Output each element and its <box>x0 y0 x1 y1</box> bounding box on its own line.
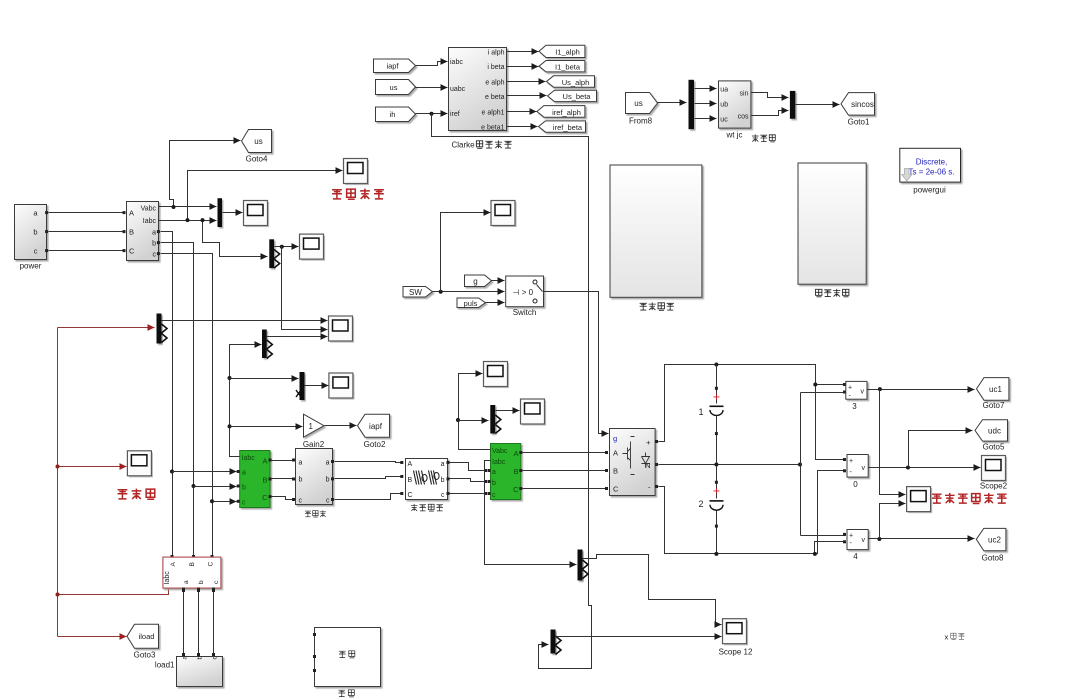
svg-text:wt jc: wt jc <box>726 131 743 140</box>
block Clarke transform subsystem <box>449 48 507 132</box>
svg-text:C: C <box>408 492 413 499</box>
wire Clarke.i_beta -> I1_beta <box>507 66 539 68</box>
wire DC- net : bridge - to bottom rail, v4-, v0- <box>659 469 847 556</box>
block VI1 three-phase V-I measurement <box>127 202 160 261</box>
label yu-chong-dian <box>305 510 326 517</box>
svg-text:iabc: iabc <box>450 59 463 66</box>
wire mux9 -> Goto1 <box>796 104 840 106</box>
svg-text:Scope2: Scope2 <box>980 482 1008 491</box>
wire green2.A -> bridge.A <box>523 451 609 454</box>
svg-text:Vabc: Vabc <box>492 448 508 455</box>
svg-text:Scope 12: Scope 12 <box>719 648 753 657</box>
wire demux8 -> wtjc.ua <box>695 88 717 90</box>
svg-text:b: b <box>326 477 330 484</box>
wire filter.b -> green2.b <box>450 479 488 484</box>
svg-text:e alph: e alph <box>485 80 504 87</box>
label wt jc <box>726 131 743 140</box>
svg-text:uc: uc <box>720 117 728 124</box>
label x-harmonic (gray) <box>945 633 965 642</box>
wire mux1 -> scopeA <box>223 212 243 214</box>
svg-text:c: c <box>441 492 445 499</box>
svg-text:b: b <box>152 241 156 248</box>
label yuan-xie-bo (red) <box>118 489 155 500</box>
svg-text:uabc: uabc <box>450 86 466 93</box>
svg-text:e alph1: e alph1 <box>482 110 505 117</box>
svg-text:udc: udc <box>988 427 1001 436</box>
svg-text:Goto8: Goto8 <box>982 554 1004 563</box>
demux demux2 <box>269 239 279 268</box>
svg-text:v: v <box>861 389 865 396</box>
svg-text:g: g <box>613 434 617 443</box>
wire From8 -> demux8 <box>658 102 687 104</box>
wire v0 -> Scope2 and Goto5 udc <box>869 431 981 470</box>
wire puls -> switch.in3 <box>486 302 505 304</box>
svg-text:us: us <box>390 83 398 92</box>
demux demux5 (red input, load current) <box>157 314 168 344</box>
svg-text:b: b <box>197 656 204 660</box>
voltage sensor 0 <box>847 455 868 490</box>
wire ih -> Clarke.iref, junction down to bottom loop <box>416 112 592 669</box>
demux demux6 <box>551 630 562 655</box>
scope Scope12 <box>719 619 753 657</box>
svg-text:B: B <box>262 476 267 485</box>
wire demux10 -> scope9 <box>496 410 520 412</box>
wire green2.Iabc down to demux7 <box>485 461 577 565</box>
svg-text:SW: SW <box>409 288 422 297</box>
scope scope8 <box>484 362 510 389</box>
wire VI1.c down-rail (x=211.5) to green1.c and red iabc block C <box>161 254 237 559</box>
from tag g <box>465 275 492 287</box>
wire iapf -> Clarke.iabc <box>416 62 448 66</box>
svg-text:A: A <box>262 457 267 466</box>
wire mux3 -> scope7 <box>305 385 329 387</box>
svg-text:a: a <box>441 461 445 468</box>
wire VI1.Iabc -> mux1 in2 / scope-bochang / down-branch <box>159 171 343 257</box>
label zhu-tuo-pu-mo-kuai (main topology) <box>640 302 674 310</box>
svg-text:cos: cos <box>738 114 749 121</box>
wire VI1.a down-rail (x=171.5) to green1.a and red iabc block A <box>161 232 237 559</box>
svg-text:c: c <box>242 500 246 507</box>
svg-text:Goto7: Goto7 <box>983 401 1005 410</box>
wire iabc block c -> load1.c <box>212 589 215 657</box>
label suo-xiang-huan (PLL) <box>752 134 775 141</box>
svg-text:I1_alph: I1_alph <box>555 48 580 57</box>
svg-text:b: b <box>299 477 303 484</box>
svg-text:B: B <box>613 467 618 476</box>
svg-text:4: 4 <box>853 552 858 561</box>
demux demux8 <box>689 80 695 129</box>
svg-text:b: b <box>33 228 37 237</box>
svg-text:us: us <box>254 137 262 146</box>
svg-text:C: C <box>129 247 135 256</box>
wire SW -> switch.in2 and up to scope5 <box>433 213 505 294</box>
demux demux10 <box>490 405 501 434</box>
block filter inductor (lv-bo-dian-gan) <box>406 459 450 500</box>
svg-text:c: c <box>34 247 38 256</box>
svg-text:Iabc: Iabc <box>143 218 157 225</box>
wire v4 -> Goto8 uc2 and scope-neutral in2 <box>869 504 975 542</box>
svg-text:2: 2 <box>699 499 704 509</box>
scope scope5 (SW display) <box>491 201 517 228</box>
capacitor C2 <box>699 465 724 554</box>
label zhong-dian-dian-wei-xiao-guo (red) <box>932 493 1007 503</box>
capacitor C1 <box>699 365 724 465</box>
wire Gain2 -> Goto2 <box>325 425 357 427</box>
wire g -> switch.in1 <box>492 280 505 282</box>
block main-topology big subsystem <box>610 165 702 297</box>
from tag puls <box>457 298 486 308</box>
svg-text:C: C <box>262 493 268 502</box>
block IGBT bridge <box>610 429 659 496</box>
gain Gain2 <box>303 414 325 449</box>
from tag ih <box>376 107 416 122</box>
svg-text:+: + <box>848 384 852 391</box>
goto tag Us_beta <box>548 90 597 101</box>
wire precharge.b -> filter.B <box>335 475 404 479</box>
svg-text:a: a <box>326 460 330 467</box>
svg-text:g: g <box>473 277 477 286</box>
svg-text:b: b <box>441 477 445 484</box>
wire precharge.a -> filter.A <box>335 461 404 464</box>
wire wtjc.sin -> mux9 <box>751 93 789 98</box>
svg-text:From8: From8 <box>629 117 653 126</box>
svg-text:C: C <box>613 485 619 494</box>
svg-text:powergui: powergui <box>913 186 946 195</box>
svg-text:c: c <box>326 498 330 505</box>
svg-text:uc1: uc1 <box>989 385 1002 394</box>
block powergui <box>900 148 961 194</box>
goto tag Goto8 uc2 <box>976 528 1006 562</box>
scope ScopeB <box>300 234 326 261</box>
svg-text:c: c <box>153 252 157 259</box>
svg-text:ih: ih <box>390 110 396 119</box>
from tag SW <box>403 287 433 298</box>
svg-text:power: power <box>20 262 42 271</box>
svg-text:+: + <box>646 438 651 447</box>
svg-text:a: a <box>182 656 189 660</box>
wire v3 -> Goto7 uc1 and scope-neutral in1 <box>867 387 975 494</box>
svg-text:e beta: e beta <box>485 94 505 101</box>
mux mux9 <box>790 91 796 119</box>
goto tag I1_beta <box>539 61 585 72</box>
svg-text:Ts = 2e-06 s.: Ts = 2e-06 s. <box>908 168 954 177</box>
svg-text:a: a <box>242 470 246 477</box>
wire Clarke.e_beta -> Us_beta <box>507 95 547 97</box>
goto tag Goto7 uc1 <box>977 378 1009 410</box>
svg-text:B: B <box>129 228 134 237</box>
svg-text:Switch: Switch <box>513 308 537 317</box>
goto tag iref_alph <box>537 106 585 118</box>
block load1 <box>155 656 223 687</box>
svg-text:b: b <box>492 480 496 487</box>
svg-text:sin: sin <box>740 91 749 98</box>
svg-text:iapf: iapf <box>386 62 399 71</box>
block iabc load measurement (red outline, rotated) <box>163 557 221 590</box>
wire VI1.Vabc -> Goto4 and mux1 in1 <box>159 141 241 210</box>
svg-text:ub: ub <box>720 102 728 109</box>
wire switch out -> bridge g <box>544 292 609 434</box>
svg-text:A: A <box>170 562 177 567</box>
svg-text:1: 1 <box>699 407 704 417</box>
goto tag Goto5 udc <box>975 420 1008 452</box>
wire green2.B -> bridge.B <box>523 469 609 472</box>
wire demux7 -> Scope12 in1 <box>583 555 722 625</box>
wire demux8 -> wtjc.uc <box>695 118 717 120</box>
svg-text:iref: iref <box>450 111 460 118</box>
svg-text:Discrete,: Discrete, <box>916 158 948 167</box>
svg-text:us: us <box>634 99 642 108</box>
svg-text:a: a <box>152 230 156 237</box>
wire DC+ net : bridge + to top rail, cap1, v3+, v0+ <box>659 363 847 462</box>
wire filter.a -> green2.a <box>450 463 488 473</box>
label fu-zai below <box>338 690 354 697</box>
block power <box>15 205 49 271</box>
svg-text:sincos: sincos <box>851 100 874 109</box>
svg-text:Goto2: Goto2 <box>364 440 386 449</box>
wire demux4 -> scope6.in3 <box>267 336 328 338</box>
label xie-bo-jian-ce (harmonic detection) <box>816 289 849 297</box>
svg-text:b: b <box>242 485 246 492</box>
scope yuan-xie-bo (original harmonic) <box>127 451 153 478</box>
wire demux2 -> scopeB and down branch to scope6.in2 <box>275 245 328 330</box>
demux demux4 <box>262 330 272 359</box>
block green2 measurement (green) <box>488 444 523 500</box>
svg-text:v: v <box>862 465 866 472</box>
svg-text:e beta1: e beta1 <box>481 125 504 132</box>
svg-text:c: c <box>299 498 303 505</box>
block green1 measurement (green) <box>237 451 272 508</box>
goto tag iref_beta <box>539 121 586 132</box>
svg-text:I1_beta: I1_beta <box>555 63 581 72</box>
wire green1.Iabc up-rail (x=229) to demux4 / mux3 / Gain2 <box>228 345 303 457</box>
svg-text:A: A <box>408 461 413 468</box>
svg-text:load1: load1 <box>155 661 175 670</box>
svg-text:a: a <box>492 469 496 476</box>
scope ScopeA <box>244 201 270 228</box>
wire demux5 -> scope6.in1 <box>162 320 328 322</box>
svg-text:Us_beta: Us_beta <box>563 92 592 101</box>
svg-text:iload: iload <box>139 632 155 641</box>
svg-text:Iabc: Iabc <box>164 571 171 585</box>
from tag us <box>376 80 416 95</box>
goto tag Goto1 sincos <box>841 93 875 127</box>
wire iabc block a -> load1.a <box>182 589 185 657</box>
svg-text:iapf: iapf <box>369 422 383 431</box>
svg-text:3: 3 <box>852 402 857 411</box>
svg-text:Us_alph: Us_alph <box>562 78 590 87</box>
wire red load-current net <box>56 328 169 637</box>
from tag From8 us <box>626 93 658 126</box>
block Switch <box>506 276 544 317</box>
svg-text:+: + <box>849 458 853 465</box>
wire power.b -> VI1.B <box>49 230 126 233</box>
scope Scope2 <box>980 456 1008 491</box>
goto tag I1_alph <box>539 45 585 57</box>
label lv-bo-dian-gan <box>411 504 443 511</box>
goto tag Goto2 iapf <box>358 414 390 449</box>
svg-text:Goto4: Goto4 <box>246 155 268 164</box>
scope scope7 <box>329 373 355 400</box>
goto tag Goto3 iload <box>127 624 159 659</box>
svg-text:ua: ua <box>720 87 728 94</box>
wire green2.C -> bridge.C <box>523 487 609 490</box>
wire iabc block b -> load1.b <box>197 589 200 657</box>
wire Clarke.e_beta1 -> iref_beta <box>507 126 538 128</box>
wire demux6 -> Scope12 in2 <box>556 636 722 638</box>
mux mux1 <box>218 198 223 227</box>
wire green1.C -> precharge.c <box>272 497 296 502</box>
svg-text:Clarke: Clarke <box>452 141 476 150</box>
wire power.c -> VI1.C <box>49 249 126 252</box>
svg-text:B: B <box>408 477 413 484</box>
wire demux8 -> wtjc.ub <box>695 103 717 105</box>
scope scope6 (three inputs) <box>329 316 355 343</box>
scope neutral-point-effect <box>907 487 933 514</box>
svg-text:b: b <box>198 580 205 584</box>
svg-text:Iabc: Iabc <box>492 459 506 466</box>
svg-text:Gain2: Gain2 <box>303 440 325 449</box>
svg-text:a: a <box>299 460 303 467</box>
svg-text:B: B <box>513 467 518 476</box>
svg-text:i alph: i alph <box>488 50 505 57</box>
wire green1.A -> precharge.a <box>272 459 296 462</box>
block harmonic-detection big subsystem <box>798 163 866 284</box>
svg-text:Goto3: Goto3 <box>134 651 156 660</box>
wire precharge.c -> filter.C <box>335 492 404 500</box>
svg-text:⊣ > 0: ⊣ > 0 <box>513 288 534 297</box>
label Clarke zuobiao bianhuan <box>452 140 512 149</box>
svg-text:iref_alph: iref_alph <box>552 108 581 117</box>
block precharge (yu-chong-dian) <box>296 449 335 505</box>
goto tag Us_alph <box>547 76 595 87</box>
scope compensation-effect scope <box>344 159 370 186</box>
wire VI1.b down-rail (x=193) to green1.b and red iabc block B <box>161 243 237 559</box>
voltage sensor 4 <box>847 530 868 562</box>
svg-text:C: C <box>513 485 519 494</box>
svg-text:C: C <box>208 562 215 567</box>
wire Clarke.e_alph1 -> iref_alph <box>507 111 537 113</box>
wire Clarke.i_alph -> I1_alph <box>507 51 539 53</box>
svg-text:i beta: i beta <box>487 64 504 71</box>
goto tag Goto4 us <box>242 130 272 164</box>
wire us -> Clarke.uabc <box>416 87 448 89</box>
svg-text:Goto1: Goto1 <box>848 118 870 127</box>
wire N net : bridge N to mid rail, v3-, v4+ <box>659 391 847 536</box>
label bu-chang-xiao-guo (compensation effect, red) <box>332 189 384 200</box>
svg-text:c: c <box>492 492 496 499</box>
svg-text:A: A <box>129 209 134 218</box>
svg-text:iref_beta: iref_beta <box>553 123 583 132</box>
wire green1.B -> precharge.b <box>272 478 296 481</box>
svg-text:a: a <box>183 580 190 584</box>
svg-text:v: v <box>862 537 866 544</box>
svg-text:uc2: uc2 <box>988 536 1001 545</box>
block load (fu-zai) square <box>313 628 381 687</box>
wire power.a -> VI1.A <box>49 211 126 214</box>
svg-text:A: A <box>613 449 618 458</box>
svg-text:x: x <box>945 633 949 642</box>
block wtjc PLL <box>719 81 751 128</box>
wire filter.c -> green2.c <box>450 492 488 495</box>
svg-text:Iabc: Iabc <box>242 455 256 462</box>
svg-text:0: 0 <box>853 480 858 489</box>
mux mux3 (with unconnected x port) <box>296 372 305 400</box>
wire Clarke.e_alph -> Us_alph <box>507 81 546 83</box>
svg-text:puls: puls <box>464 299 478 308</box>
svg-text:A: A <box>513 449 518 458</box>
svg-text:1: 1 <box>309 422 314 431</box>
wire wtjc.cos -> mux9 <box>751 111 789 116</box>
from tag iapf <box>374 59 416 73</box>
wire green2.Vabc up to scope8 and demux10 <box>456 374 491 450</box>
demux demux7 <box>578 550 589 581</box>
svg-text:Goto5: Goto5 <box>983 443 1005 452</box>
voltage sensor 3 <box>846 381 867 411</box>
svg-text:B: B <box>189 562 196 566</box>
svg-text:+: + <box>849 533 853 540</box>
svg-text:Vabc: Vabc <box>141 206 157 213</box>
scope scope9 <box>521 399 547 426</box>
